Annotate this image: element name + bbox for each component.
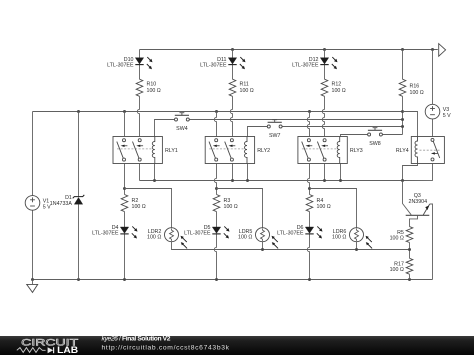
junction rail1 / RLY1 sw1 [123, 110, 126, 113]
svg-text:RLY4: RLY4 [396, 148, 409, 154]
wire D4 to ground rail [124, 234, 126, 280]
svg-text:LTL-307EE: LTL-307EE [200, 63, 227, 69]
CircuitLab logo [17, 336, 79, 355]
wire RLY3 sw1 bottom to R4 and LDR6 [307, 161, 309, 194]
wire D12 column [324, 50, 326, 58]
wire SW7 output rail [282, 126, 402, 128]
wire RLY2 sw2 bottom [232, 161, 234, 180]
junction top rail / D11 [231, 48, 234, 51]
wire RLY3 sw2 bottom [324, 161, 326, 180]
svg-text:100 Ω: 100 Ω [332, 234, 346, 240]
photoresistor LDR5 [238, 228, 278, 249]
svg-text:SW7: SW7 [269, 133, 281, 139]
wire V1 to rail 1 [32, 112, 34, 196]
svg-text:RLY3: RLY3 [350, 148, 363, 154]
svg-text:RLY1: RLY1 [165, 148, 178, 154]
wire RLY1 coil to SW4 [155, 120, 175, 137]
wire rail 1 (V1+ bus) [33, 111, 403, 113]
svg-text:R3: R3 [224, 198, 231, 204]
junction ground rail / D6 [308, 278, 311, 281]
resistor R17 (100 ohm) [390, 258, 413, 274]
svg-text:100 Ω: 100 Ω [390, 235, 404, 241]
relay RLY3 (DPDT) [298, 137, 363, 164]
wire D1 column [78, 112, 80, 197]
svg-text:RLY2: RLY2 [257, 148, 270, 154]
resistor R4 (100 ohm) [306, 195, 331, 212]
svg-text:R2: R2 [132, 198, 139, 204]
svg-text:100 Ω: 100 Ω [390, 267, 404, 273]
wire D5 to ground rail [214, 234, 216, 280]
wire D11 column [232, 50, 234, 58]
LED D6 (LTL-307EE) [277, 225, 322, 238]
junction top rail / R16 [401, 48, 404, 51]
svg-text:100 Ω: 100 Ω [410, 90, 424, 96]
switch SW4 (pushbutton SPST) [175, 113, 190, 132]
wire D6 to ground rail [307, 234, 309, 280]
svg-text:LTL-307EE: LTL-307EE [107, 63, 134, 69]
junction ground rail / D1 [77, 278, 80, 281]
junction ground rail / D4 [123, 278, 126, 281]
svg-text:LTL-307EE: LTL-307EE [92, 231, 119, 237]
LED D4 (LTL-307EE) [92, 225, 137, 238]
svg-text:5 V: 5 V [443, 113, 451, 119]
junction coil rail / RLY1 coil [154, 164, 156, 181]
wire RLY3 sw1 to rail1 [307, 112, 309, 139]
switch SW7 (pushbutton SPST) [267, 120, 282, 139]
wire SW8 output rail [382, 134, 402, 136]
svg-text:LTL-307EE: LTL-307EE [277, 231, 304, 237]
wire RLY1 sw2 bottom to coil rail [139, 161, 141, 180]
LED D12 (LTL-307EE) [292, 57, 337, 69]
resistor R12 (100 ohm) [321, 79, 346, 96]
photoresistor LDR2 [147, 228, 187, 249]
wire RLY1 sw1 bottom to R2 and LDR2 [124, 161, 126, 194]
wire Q3 base to R5 [410, 216, 418, 227]
svg-text:R11: R11 [240, 82, 249, 88]
junction top rail / D12 [323, 48, 326, 51]
relay RLY4 (DPDT) [396, 137, 445, 164]
svg-text:R10: R10 [147, 82, 157, 88]
wire R17 to ground rail [409, 274, 411, 279]
LED D5 (LTL-307EE) [184, 225, 229, 238]
svg-text:D1: D1 [65, 195, 72, 201]
ground [27, 280, 38, 293]
junction coil rail / RLY3 coil [340, 164, 342, 181]
junction ground rail / R17 [408, 278, 411, 281]
svg-text:R16: R16 [410, 84, 420, 90]
resistor R3 (100 ohm) [213, 195, 238, 212]
wire RLY2 sw1 bottom to R3 and LDR5 [214, 161, 216, 194]
wire Q3 emitter to ground rail [430, 204, 433, 280]
wire Q3 collector [403, 181, 412, 215]
svg-text:R12: R12 [332, 82, 342, 88]
relay RLY2 (DPDT) [205, 137, 270, 164]
svg-text:http://circuitlab.com/ccst8c67: http://circuitlab.com/ccst8c6743b3k [102, 345, 230, 352]
resistor R16 (100 ohm) [399, 79, 424, 96]
wire V1- to ground rail [32, 210, 34, 279]
wire R4 to D6 [309, 212, 311, 227]
svg-text:LTL-307EE: LTL-307EE [184, 231, 211, 237]
wire D10 column [139, 50, 141, 58]
resistor R5 (100 ohm) [390, 227, 413, 243]
relay RLY1 (DPDT) [113, 137, 178, 164]
photoresistor LDR6 [332, 228, 372, 249]
transistor Q3 (2N3904 NPN) [406, 193, 430, 216]
resistor R11 (100 ohm) [229, 79, 254, 96]
svg-text:1N4733A: 1N4733A [50, 201, 73, 207]
wire SW4 output rail [189, 119, 402, 121]
wire RLY3 coil to SW8 [341, 135, 369, 137]
LED D10 (LTL-307EE) [107, 57, 152, 69]
zener diode D1 (1N4733A) [50, 195, 84, 207]
wire ground rail [33, 279, 433, 281]
wire V3 column [432, 50, 434, 105]
wire R2 to D4 [124, 212, 126, 227]
wire RLY2 coil to SW7 [248, 127, 268, 137]
junction top rail / V3 [431, 48, 434, 51]
LED D11 (LTL-307EE) [200, 57, 245, 69]
wire rail1 corner to RLY4 coil [403, 112, 418, 137]
wire LDR5 bottom [262, 242, 264, 250]
wire top rail (node to output flag) [140, 49, 438, 51]
svg-text:100 Ω: 100 Ω [332, 88, 346, 94]
wire coil return rail [140, 180, 403, 182]
wire R5 to R17 junction [409, 243, 411, 259]
junction rail1 / D1 [77, 110, 80, 113]
svg-text:LTL-307EE: LTL-307EE [292, 63, 319, 69]
wire RLY4 switch bottom to node [403, 161, 433, 181]
wire RLY4 coil bottom to node [403, 164, 418, 181]
junction coil rail / RLY2 coil [247, 164, 249, 181]
svg-text:100 Ω: 100 Ω [317, 204, 331, 210]
svg-text:100 Ω: 100 Ω [238, 234, 252, 240]
svg-text:2N3904: 2N3904 [409, 199, 428, 205]
wire R3 to D5 [216, 212, 218, 227]
svg-text:100 Ω: 100 Ω [240, 88, 254, 94]
junction rail1 / RLY2 sw1 [215, 110, 218, 113]
svg-text:100 Ω: 100 Ω [147, 88, 161, 94]
svg-text:SW8: SW8 [369, 141, 381, 147]
wire RLY2 sw1 to rail1 [214, 112, 216, 139]
resistor R10 (100 ohm) [136, 79, 161, 96]
junction relay drive node [401, 179, 404, 182]
voltage source V1 (5 V) [25, 196, 51, 211]
wire RLY1 sw1 to rail1 [124, 112, 126, 139]
junction ground rail / D5 [215, 278, 218, 281]
voltage source V3 (5 V) [425, 104, 451, 119]
resistor R2 (100 ohm) [121, 195, 146, 212]
output net flag [439, 44, 446, 57]
svg-text:SW4: SW4 [176, 126, 188, 132]
svg-text:100 Ω: 100 Ω [132, 204, 146, 210]
svg-text:R4: R4 [317, 198, 324, 204]
svg-text:100 Ω: 100 Ω [224, 204, 238, 210]
svg-text:100 Ω: 100 Ω [147, 234, 161, 240]
svg-text:kye26 / Final Solution V2: kye26 / Final Solution V2 [102, 336, 171, 343]
wire R16 drop with junctions to switch rails [402, 50, 404, 80]
svg-text:LAB: LAB [57, 345, 78, 355]
switch SW8 (pushbutton SPST) [368, 128, 383, 147]
wire LDR6 bottom [356, 242, 358, 250]
junction rail1 / RLY3 sw1 [308, 110, 311, 113]
wire LDR sense line to R5/R17 node [172, 242, 410, 250]
